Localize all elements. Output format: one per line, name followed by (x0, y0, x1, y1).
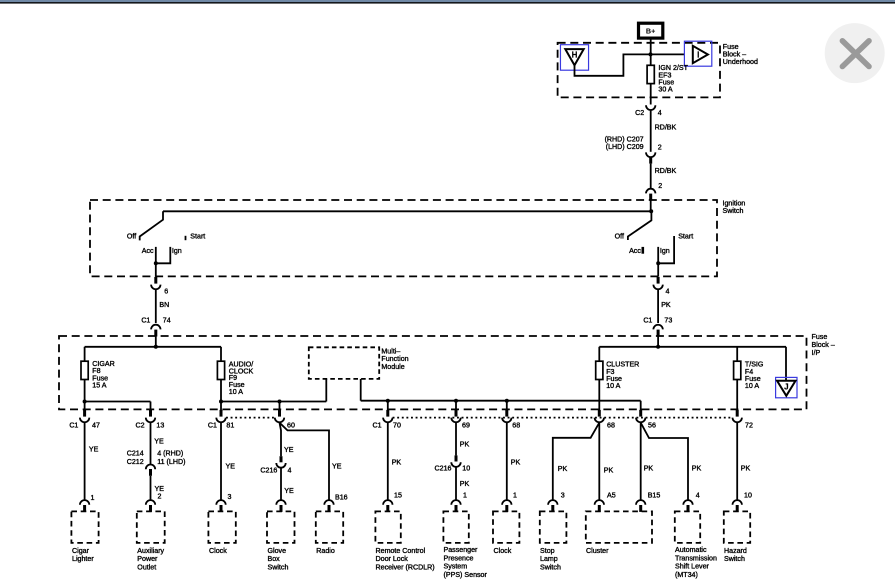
label Radio (316, 547, 335, 555)
connector pin 69 (451, 410, 460, 422)
svg-text:72: 72 (745, 422, 753, 430)
clock box 1 (208, 511, 235, 543)
cluster fuse drop (598, 347, 600, 361)
label 68 clock (512, 421, 520, 429)
junction right switch output (656, 261, 660, 265)
fuse CIGAR F8 15A (81, 361, 88, 379)
inline connector C216 pin 10 (451, 455, 460, 467)
svg-text:PK: PK (460, 480, 470, 488)
wire PK to clock2 (506, 423, 508, 500)
wire 72 to hazard switch (736, 423, 738, 500)
svg-text:10: 10 (462, 465, 470, 473)
label PK cluster A5 (604, 466, 614, 474)
label Fuse Block Underhood (723, 43, 758, 66)
svg-text:30 A: 30 A (658, 86, 672, 94)
fuse block IP box (59, 336, 807, 409)
connector pin 68 cluster (595, 410, 604, 422)
svg-text:C212: C212 (127, 458, 144, 466)
svg-text:Off: Off (127, 232, 136, 240)
svg-text:Auxiliary: Auxiliary (137, 547, 164, 555)
label C1 70a (373, 421, 382, 429)
label YE aux lower (155, 485, 165, 493)
svg-text:Presence: Presence (444, 554, 474, 562)
connector into automatic transmission shift lever (683, 500, 692, 512)
label Acc right (629, 247, 641, 255)
connector pin 56 (636, 410, 645, 422)
label YE glove upper (284, 446, 294, 454)
svg-text:3: 3 (228, 493, 232, 501)
svg-text:68: 68 (607, 421, 615, 429)
connector out of ignition left pin 6 (151, 277, 160, 289)
svg-text:Switch: Switch (723, 207, 744, 215)
label wire PK right leg (661, 301, 671, 309)
svg-text:Stop: Stop (540, 547, 555, 555)
inline connector C214/C212 (146, 465, 155, 476)
svg-text:4: 4 (658, 109, 662, 117)
wire B+ to fuse (650, 38, 652, 65)
label pin 1 pps (463, 491, 467, 499)
svg-text:System: System (444, 563, 468, 571)
wire YE to cigar lighter (84, 423, 86, 500)
ignition switch box (90, 200, 717, 276)
label pin 4 right (666, 287, 670, 295)
connector C1 pin 70 (383, 410, 392, 422)
svg-text:YE: YE (284, 487, 294, 495)
label pin 2 lower (658, 182, 662, 190)
wire PK right leg (657, 290, 659, 323)
hazard switch box (724, 511, 750, 543)
stop lamp switch box (540, 511, 567, 543)
svg-text:Function: Function (381, 355, 408, 363)
battery feed B+ (639, 23, 663, 38)
glove box switch box (267, 511, 295, 543)
svg-text:Start: Start (190, 233, 205, 241)
svg-text:15 A: 15 A (92, 382, 106, 390)
junction right bus (656, 345, 660, 349)
left sub-bus (85, 401, 151, 403)
wire C207 to ignition switch (650, 164, 652, 189)
label pin 1 cigar (91, 494, 95, 502)
label Hazard Switch (724, 547, 747, 563)
cigar fuse drop (84, 347, 86, 361)
dotted connector bridge left (226, 417, 275, 419)
wire into left bus (155, 336, 157, 347)
connector into cigar lighter (80, 500, 89, 512)
label PK cluster B15 (644, 464, 654, 472)
label 69 (462, 421, 470, 429)
label wire BN (159, 301, 169, 309)
junction left switch output (154, 261, 158, 265)
label PK shift (692, 464, 702, 472)
label Ign right (660, 247, 670, 255)
svg-text:BN: BN (159, 301, 169, 309)
drop to C2 13 (150, 402, 152, 412)
svg-text:B16: B16 (335, 493, 348, 501)
svg-text:47: 47 (92, 422, 100, 430)
svg-text:73: 73 (664, 316, 672, 324)
svg-text:(LHD) C209: (LHD) C209 (606, 143, 644, 151)
svg-text:Multi–: Multi– (381, 347, 400, 355)
wire YE to C214 (150, 423, 152, 465)
inline connector C216 pin 4 (276, 456, 285, 468)
wire YE to clock1 (220, 423, 222, 500)
mid sub-bus (221, 379, 326, 412)
junction ignition feed (649, 209, 653, 213)
svg-text:C1: C1 (643, 316, 652, 324)
svg-text:Fuse: Fuse (812, 333, 828, 341)
svg-text:YE: YE (284, 446, 294, 454)
svg-text:4 (RHD): 4 (RHD) (157, 450, 183, 458)
label Remote Control Door Lock Receiver (RCDLR) (376, 547, 435, 572)
svg-text:Lamp: Lamp (540, 555, 558, 563)
svg-text:1: 1 (463, 491, 467, 499)
label pin 4 glove (288, 467, 292, 475)
label Acc left (142, 247, 154, 255)
svg-text:68: 68 (512, 421, 520, 429)
svg-text:I: I (697, 51, 699, 60)
cigar fuse to sub-bus (84, 380, 86, 402)
label pin 15 rcdlr (394, 491, 402, 499)
svg-text:10 A: 10 A (606, 382, 620, 390)
label pin 74 (163, 316, 171, 324)
connector C1 pin 47 (80, 410, 89, 422)
label PK pps lower (460, 480, 470, 488)
svg-text:PK: PK (741, 464, 751, 472)
svg-text:PK: PK (460, 440, 470, 448)
svg-text:C214: C214 (127, 450, 144, 458)
svg-text:10: 10 (744, 492, 752, 500)
tsig fuse to exit 72 (736, 380, 738, 412)
svg-text:Hazard: Hazard (724, 547, 747, 555)
svg-text:Clock: Clock (209, 547, 227, 555)
svg-text:YE: YE (89, 446, 99, 454)
svg-text:Ign: Ign (172, 247, 182, 255)
junction audio sub-bus (219, 400, 223, 404)
svg-text:Clock: Clock (494, 547, 512, 555)
svg-text:81: 81 (226, 422, 234, 430)
svg-text:J: J (784, 382, 788, 391)
svg-text:Glove: Glove (268, 547, 287, 555)
fuse CLUSTER F3 10A (596, 361, 603, 379)
svg-text:70: 70 (393, 421, 401, 429)
label Automatic Transmission Shift Lever (MT34) (675, 546, 717, 579)
junction sub-bus 69 (454, 399, 458, 403)
automatic transmission shift lever box (675, 511, 700, 543)
label pin 10 pps (462, 465, 470, 473)
svg-text:Power: Power (137, 555, 158, 563)
left bus (85, 346, 221, 348)
junction cigar sub-bus (83, 400, 87, 404)
svg-text:PK: PK (604, 466, 614, 474)
label 81 (226, 422, 234, 430)
svg-text:Radio: Radio (316, 547, 335, 555)
connector into passenger presence system (451, 500, 460, 512)
svg-text:PK: PK (392, 459, 402, 467)
label pin 4 (658, 109, 662, 117)
dotted connector bridge right (393, 417, 733, 419)
svg-text:Module: Module (381, 363, 404, 371)
label Stop Lamp Switch (540, 547, 561, 572)
label CLUSTER F3 Fuse 10 A (606, 361, 639, 391)
connector C1 pin 74 into fuse block (151, 325, 160, 337)
wire to J symbol (785, 347, 787, 381)
wire ignition feed bus (163, 200, 651, 211)
cluster box (586, 511, 652, 543)
inline connector C207/C209 (646, 152, 655, 163)
svg-text:Automatic: Automatic (675, 546, 707, 554)
label 4 RHD 11 LHD (157, 450, 185, 467)
audio fuse drop (220, 347, 222, 361)
label pin 1 clock2 (513, 491, 517, 499)
connector symbol J (776, 377, 797, 397)
svg-text:6: 6 (164, 287, 168, 295)
label pin 10 hazard (744, 492, 752, 500)
svg-text:Receiver (RCDLR): Receiver (RCDLR) (376, 563, 435, 571)
svg-text:11 (LHD): 11 (LHD) (157, 458, 185, 466)
fuse block underhood box (558, 43, 720, 98)
connector into clock 2 (502, 500, 511, 512)
connector out of ignition right pin 4 (653, 277, 662, 289)
svg-text:C216: C216 (435, 465, 452, 473)
close button (825, 23, 885, 83)
svg-text:B15: B15 (648, 492, 661, 500)
wire C2 to C207 (650, 110, 652, 152)
svg-text:Remote Control: Remote Control (376, 547, 426, 555)
label Cigar Lighter (72, 547, 94, 563)
label PK pps upper (460, 440, 470, 448)
svg-text:Outlet: Outlet (137, 563, 156, 571)
label Start left (190, 233, 205, 241)
wire PK to RCDLR (387, 423, 389, 500)
label Off right (615, 232, 624, 240)
tsig fuse drop (736, 347, 738, 361)
label Passenger Presence System (PPS) Sensor (444, 546, 488, 579)
connector pin 68 clock (502, 410, 511, 422)
svg-text:Block –: Block – (812, 341, 835, 349)
label YE clock1 (226, 462, 236, 470)
svg-text:C1: C1 (208, 422, 217, 430)
label C1 47a (69, 422, 78, 430)
svg-text:1: 1 (513, 491, 517, 499)
svg-text:2: 2 (158, 493, 162, 501)
svg-text:Acc: Acc (629, 247, 641, 255)
svg-text:(PPS) Sensor: (PPS) Sensor (444, 571, 488, 579)
label YE cigar (89, 446, 99, 454)
label PK hazard (741, 464, 751, 472)
svg-text:B+: B+ (646, 26, 655, 35)
wire C214 to aux outlet (150, 476, 152, 500)
svg-text:4: 4 (696, 492, 700, 500)
top toolbar strip (0, 0, 895, 4)
svg-text:Ignition: Ignition (723, 199, 746, 207)
clock box 2 (493, 511, 519, 543)
label pin 3 stop (561, 491, 565, 499)
svg-text:C1: C1 (141, 316, 150, 324)
svg-text:Ign: Ign (660, 247, 670, 255)
label Start right (678, 233, 693, 241)
svg-text:YE: YE (154, 438, 164, 446)
connector into auxiliary power outlet (146, 500, 155, 512)
label C214 C212 (127, 450, 144, 467)
svg-text:PK: PK (644, 464, 654, 472)
svg-text:4: 4 (666, 287, 670, 295)
label wire RD/BK upper (655, 123, 677, 131)
svg-text:PK: PK (692, 464, 702, 472)
svg-text:60: 60 (287, 422, 295, 430)
connector pin 72 (733, 410, 742, 422)
svg-text:YE: YE (226, 462, 236, 470)
svg-text:YE: YE (332, 462, 342, 470)
label pin 6 (164, 287, 168, 295)
label Off left (127, 232, 136, 240)
drop to C1 47 (84, 402, 86, 412)
svg-text:Cluster: Cluster (586, 547, 609, 555)
passenger presence system box (443, 511, 468, 543)
svg-text:H: H (572, 51, 578, 60)
label PK rcdlr (392, 459, 402, 467)
svg-text:Shift Lever: Shift Lever (675, 563, 710, 571)
wire 60 to radio (280, 423, 330, 500)
label 60 (287, 422, 295, 430)
label pin 2 upper (658, 143, 662, 151)
label pin B15 (648, 492, 661, 500)
left Start contact tick (185, 236, 187, 240)
wire BN (155, 290, 157, 323)
wire 68 to stop lamp switch (553, 423, 600, 500)
connector pin 60 (275, 410, 284, 422)
wire PK to C216 pps (455, 423, 457, 456)
svg-text:2: 2 (658, 143, 662, 151)
label Clock (209, 547, 227, 555)
svg-text:10 A: 10 A (745, 382, 759, 390)
fuse T/SIG F4 10A (734, 361, 741, 379)
junction sub-bus 68 (505, 399, 509, 403)
label C216 glove (260, 467, 277, 475)
fuse AUDIO/CLOCK F9 10A (217, 361, 224, 379)
svg-text:(MT34): (MT34) (675, 571, 698, 579)
left switch contacts and output (156, 247, 171, 277)
label pin A5 (607, 491, 616, 499)
wire 56 to cluster B15 (640, 423, 642, 500)
svg-text:Start: Start (678, 233, 693, 241)
label YE aux upper (154, 438, 164, 446)
wire 56 to shift lever (641, 423, 688, 500)
svg-text:69: 69 (462, 421, 470, 429)
svg-text:PK: PK (661, 301, 671, 309)
svg-text:Switch: Switch (540, 563, 561, 571)
module right output (360, 379, 362, 401)
svg-text:13: 13 (156, 422, 164, 430)
cluster fuse to exits (598, 380, 600, 412)
label Auxiliary Power Outlet (137, 547, 164, 572)
connector symbol I (684, 41, 711, 66)
connector into remote control door lock receiver (383, 500, 392, 512)
connector into stop lamp switch (548, 500, 557, 512)
svg-text:74: 74 (163, 316, 171, 324)
junction glove drop (278, 400, 282, 404)
wire 60 to C216 glove (280, 423, 282, 457)
label C1 right (643, 316, 652, 324)
label T/SIG F4 Fuse 10 A (745, 361, 764, 391)
wire fuse to C2 (650, 84, 652, 105)
connector symbol H (560, 45, 588, 70)
right sub-bus (361, 401, 641, 412)
label AUDIO/CLOCK F9 Fuse 10 A (229, 360, 254, 396)
label pin B16 radio (335, 493, 348, 501)
label 56 (648, 422, 656, 430)
label 68 cluster (607, 421, 615, 429)
label PK stop (558, 465, 568, 473)
remote control door lock receiver box (375, 511, 400, 543)
svg-text:Acc: Acc (142, 247, 154, 255)
svg-text:Box: Box (268, 555, 281, 563)
label pin 3 clock1 (228, 493, 232, 501)
svg-text:C1: C1 (69, 422, 78, 430)
label Fuse Block IP (812, 333, 835, 357)
svg-text:Off: Off (615, 232, 624, 240)
svg-text:2: 2 (658, 182, 662, 190)
label C2 13a (136, 422, 145, 430)
svg-text:PK: PK (511, 459, 521, 467)
label (RHD) C207 (LHD) C209 (605, 136, 644, 151)
wire 68 to cluster A5 (598, 423, 600, 500)
label Glove Box Switch (268, 547, 289, 572)
wire C216 to PPS sensor (455, 467, 457, 500)
right bus (599, 346, 786, 348)
svg-text:56: 56 (648, 422, 656, 430)
label wire RD/BK lower (655, 167, 677, 175)
label Ignition Switch (723, 199, 746, 215)
audio fuse to sub-bus (220, 380, 222, 402)
label YE glove lower (284, 487, 294, 495)
label pin 2 aux (158, 493, 162, 501)
svg-text:RD/BK: RD/BK (655, 123, 677, 131)
wire C216 to glove box switch (280, 468, 282, 500)
svg-text:Transmission: Transmission (675, 554, 717, 562)
wire into right bus (657, 336, 659, 347)
svg-text:Underhood: Underhood (723, 58, 758, 66)
svg-text:C1: C1 (373, 421, 382, 429)
right Acc contact tick (641, 247, 644, 254)
right switch lever (628, 211, 652, 240)
label Clock (494, 547, 512, 555)
svg-text:4: 4 (288, 467, 292, 475)
label Ign left (172, 247, 182, 255)
connector into glove switch (276, 500, 285, 512)
label CIGAR F8 Fuse 15 A (92, 360, 114, 390)
svg-text:1: 1 (91, 494, 95, 502)
fuse IGN 2/ST EF3 30A (647, 65, 654, 83)
label PK clock2 (511, 459, 521, 467)
radio box (316, 511, 343, 543)
auxiliary power outlet box (137, 511, 165, 543)
junction sub-bus 70 (386, 399, 390, 403)
svg-text:10 A: 10 A (229, 388, 243, 396)
label 72 (745, 422, 753, 430)
label 47 (92, 422, 100, 430)
svg-text:Passenger: Passenger (444, 546, 479, 554)
svg-text:Door Lock: Door Lock (376, 555, 409, 563)
connector into radio (324, 500, 333, 512)
svg-text:Lighter: Lighter (72, 555, 94, 563)
svg-text:15: 15 (394, 491, 402, 499)
label IGN 2/ST EF3 Fuse 30 A (658, 64, 688, 94)
label Cluster (586, 547, 609, 555)
svg-text:C2: C2 (635, 109, 644, 117)
label pin 73 (664, 316, 672, 324)
label C1 left (141, 316, 150, 324)
junction left bus (154, 345, 158, 349)
